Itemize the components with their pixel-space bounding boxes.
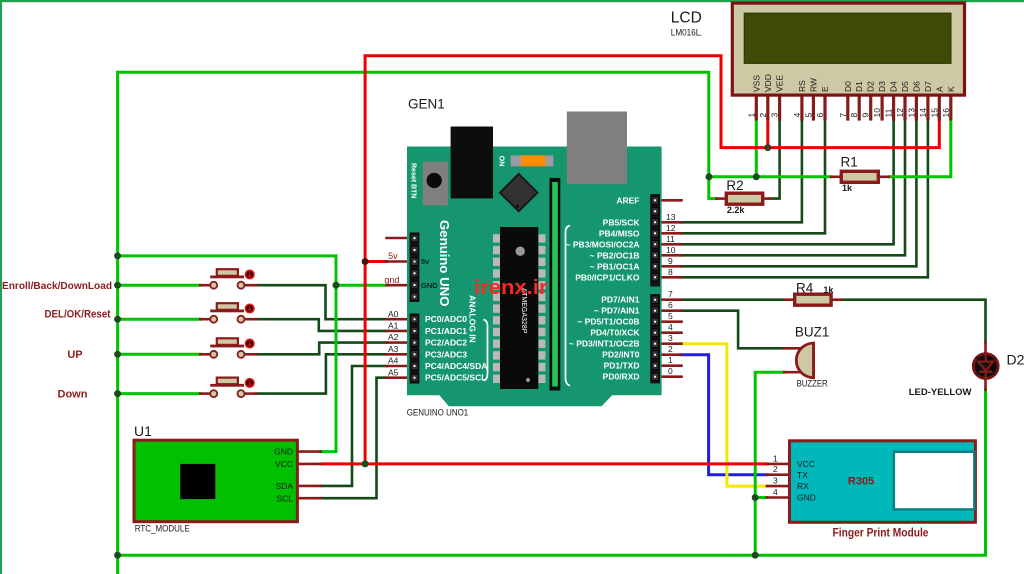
svg-text:VCC: VCC [275,459,293,469]
svg-text:TX: TX [797,470,808,480]
svg-text:U1: U1 [134,423,152,439]
svg-text:1: 1 [668,355,673,365]
svg-text:D2: D2 [1007,352,1024,368]
svg-text:7: 7 [838,113,848,118]
svg-text:4: 4 [668,322,673,332]
svg-text:GEN1: GEN1 [408,97,445,112]
svg-text:Enroll/Back/DownLoad: Enroll/Back/DownLoad [2,281,112,292]
svg-text:5: 5 [803,113,813,118]
svg-text:PD4/T0/XCK: PD4/T0/XCK [590,328,640,338]
svg-text:VDD: VDD [763,74,773,92]
svg-text:GND: GND [797,493,816,503]
svg-text:3: 3 [668,333,673,343]
svg-text:RS: RS [797,80,807,92]
svg-text:5v: 5v [388,251,398,261]
svg-text:A2: A2 [388,332,399,342]
svg-text:RW: RW [808,78,818,92]
svg-text:1: 1 [746,113,756,118]
svg-text:4: 4 [773,487,778,497]
svg-text:AREF: AREF [616,195,639,205]
svg-text:PD2/INT0: PD2/INT0 [602,350,640,360]
svg-text:D0: D0 [843,81,853,92]
svg-text:PC1/ADC1: PC1/ADC1 [425,326,467,336]
svg-text:PC2/ADC2: PC2/ADC2 [425,338,467,348]
svg-text:PD1/TXD: PD1/TXD [604,361,640,371]
svg-text:11: 11 [666,234,675,244]
svg-text:BUZZER: BUZZER [797,379,828,390]
svg-text:RX: RX [797,481,809,491]
svg-text:R305: R305 [848,475,874,487]
svg-text:Genuino UNO: Genuino UNO [437,220,452,306]
svg-text:15: 15 [929,108,939,118]
svg-text:2.2k: 2.2k [727,205,746,215]
svg-text:2: 2 [773,464,778,474]
svg-text:9: 9 [668,256,673,266]
svg-text:D2: D2 [866,81,876,92]
svg-text:14: 14 [918,108,928,118]
svg-text:gnd: gnd [384,275,399,285]
svg-text:~ PB1/OC1A: ~ PB1/OC1A [590,261,640,271]
svg-text:Reset BTN: Reset BTN [410,163,417,198]
svg-text:BUZ1: BUZ1 [795,325,830,340]
svg-text:0: 0 [668,366,673,376]
svg-text:PD7/AIN1: PD7/AIN1 [601,295,640,305]
svg-text:K: K [946,86,956,92]
svg-text:A4: A4 [388,356,399,366]
svg-text:GENUINO UNO1: GENUINO UNO1 [407,408,469,419]
svg-text:2: 2 [758,113,768,118]
svg-text:A3: A3 [388,344,399,354]
svg-text:ANALOG IN: ANALOG IN [468,295,478,343]
svg-text:RTC_MODULE: RTC_MODULE [135,524,190,535]
svg-text:4: 4 [792,113,802,118]
svg-text:A5: A5 [388,367,399,377]
svg-text:LM016L: LM016L [671,28,701,39]
svg-text:8: 8 [668,267,673,277]
svg-text:PC4/ADC4/SDA: PC4/ADC4/SDA [425,361,487,371]
svg-text:~ PD5/T1/OC0B: ~ PD5/T1/OC0B [577,317,639,327]
svg-text:PB0/ICP1/CLKO: PB0/ICP1/CLKO [575,272,640,282]
svg-text:3: 3 [770,113,780,118]
svg-text:5v: 5v [421,257,430,266]
svg-text:VSS: VSS [751,75,761,92]
svg-text:R2: R2 [726,178,743,193]
svg-text:R1: R1 [841,155,858,170]
svg-text:11: 11 [884,108,894,117]
svg-text:D1: D1 [854,81,864,92]
svg-text:GND: GND [274,447,293,457]
svg-text:GND: GND [421,281,438,290]
svg-text:6: 6 [668,300,673,310]
svg-text:A0: A0 [388,309,399,319]
svg-text:VEE: VEE [775,75,785,92]
svg-text:D7: D7 [923,81,933,92]
svg-text:PB5/SCK: PB5/SCK [603,217,641,227]
svg-text:13: 13 [666,212,676,222]
svg-text:~ PB3/MOSI/OC2A: ~ PB3/MOSI/OC2A [566,239,640,249]
svg-text:UP: UP [67,349,82,361]
svg-text:13: 13 [906,108,916,118]
svg-text:12: 12 [895,108,905,118]
svg-text:PC3/ADC3: PC3/ADC3 [425,349,467,359]
svg-text:LCD: LCD [671,10,702,27]
svg-text:PC0/ADC0: PC0/ADC0 [425,314,467,324]
svg-text:E: E [820,86,830,92]
svg-text:2: 2 [668,344,673,354]
svg-text:SCL: SCL [276,493,293,503]
svg-text:5: 5 [668,311,673,321]
svg-text:1: 1 [773,453,778,463]
svg-text:12: 12 [666,223,676,233]
svg-text:9: 9 [861,113,871,118]
svg-text:Down: Down [58,389,88,401]
svg-text:10: 10 [666,245,676,255]
svg-text:~ PB2/OC1B: ~ PB2/OC1B [590,250,640,260]
svg-text:6: 6 [815,113,825,118]
svg-text:LED-YELLOW: LED-YELLOW [909,387,972,398]
svg-text:3: 3 [773,476,778,486]
svg-text:VCC: VCC [797,459,815,469]
svg-text:DEL/OK/Reset: DEL/OK/Reset [45,309,111,321]
svg-text:SDA: SDA [276,481,294,491]
svg-text:irenx.ir: irenx.ir [474,276,548,299]
svg-text:10: 10 [872,108,882,118]
svg-text:D5: D5 [900,81,910,92]
svg-text:Finger Print Module: Finger Print Module [833,528,929,540]
svg-text:PB4/MISO: PB4/MISO [599,228,640,238]
svg-text:~ PD7/AIN1: ~ PD7/AIN1 [594,306,640,316]
svg-text:1k: 1k [842,183,853,193]
svg-text:PC5/ADC5/SCL: PC5/ADC5/SCL [425,373,486,383]
svg-text:A: A [934,86,944,92]
svg-text:ON: ON [498,156,505,167]
svg-text:~ PD3/INT1/OC2B: ~ PD3/INT1/OC2B [569,339,640,349]
svg-text:7: 7 [668,289,673,299]
svg-text:A1: A1 [388,321,399,331]
svg-text:D4: D4 [889,81,899,92]
svg-text:D6: D6 [911,81,921,92]
svg-text:R4: R4 [796,281,814,296]
svg-text:1k: 1k [823,285,834,295]
svg-text:8: 8 [849,113,859,118]
svg-text:16: 16 [941,108,951,118]
svg-text:D3: D3 [877,81,887,92]
svg-text:PD0/RXD: PD0/RXD [603,372,640,382]
